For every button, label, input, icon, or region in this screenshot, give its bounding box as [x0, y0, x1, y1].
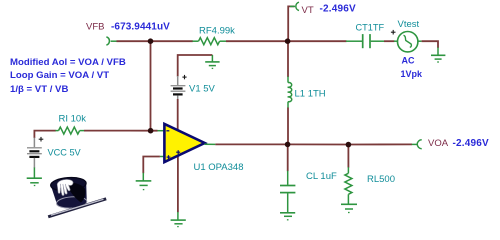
svg-text:VCC 5V: VCC 5V: [48, 147, 82, 157]
wire op-amp inverting input stub (green): [158, 130, 164, 132]
wire VFB junction down to inverting input junction: [150, 41, 152, 131]
label Vtest plus mark: [391, 30, 396, 35]
wire top junction down to L1: [287, 41, 289, 77]
junction output/RL: [346, 142, 352, 148]
ground (below non-inverting input): [136, 173, 152, 190]
junction output/L1/CL: [285, 142, 291, 148]
ground (below CL): [280, 213, 295, 220]
logo magician hat and wand: [50, 176, 88, 209]
svg-text:-673.9441uV: -673.9441uV: [111, 21, 170, 32]
svg-text:RL500: RL500: [367, 174, 395, 185]
wire CT to Vtest: [384, 40, 395, 42]
wire VFB terminal lead (green): [111, 40, 117, 42]
svg-text:Loop Gain = VOA / VT: Loop Gain = VOA / VT: [10, 70, 109, 81]
glove finger lines: [60, 183, 67, 192]
svg-text:Modified Aol = VOA / VFB: Modified Aol = VOA / VFB: [10, 57, 126, 68]
svg-text:-2.496V: -2.496V: [320, 4, 357, 15]
wire RF to top junction: [226, 40, 288, 42]
svg-text:Vtest: Vtest: [398, 19, 420, 30]
wire VCC corner to RI: [34, 131, 55, 138]
wire junction 1 to junction 2: [288, 143, 349, 145]
capacitor CT (1TF): [346, 34, 384, 48]
junction inverting input: [148, 128, 154, 134]
wire op-amp non-inverting input stub (green): [160, 156, 164, 158]
hat body: [51, 182, 88, 204]
ground (right of V1): [205, 55, 219, 68]
svg-text:1Vpk: 1Vpk: [401, 69, 424, 79]
wire L1 to output junction 1: [287, 108, 289, 145]
svg-text:1/β = VT / VB: 1/β = VT / VB: [10, 84, 68, 95]
wire non-inverting input to ground: [143, 157, 160, 174]
svg-text:CL 1uF: CL 1uF: [306, 171, 337, 182]
hat interior shadow: [65, 180, 86, 203]
wire RI to inverting input junction: [84, 130, 158, 132]
pin plus mark (supply): [176, 150, 180, 154]
label V1 plus mark: [182, 75, 186, 79]
inductor L1 (1TH): [288, 77, 292, 108]
junction top at RF/L1 column: [285, 38, 291, 44]
svg-text:AC: AC: [402, 55, 415, 65]
resistor RL (500): [345, 167, 352, 204]
svg-text:L1 1TH: L1 1TH: [295, 89, 326, 100]
wire junction 1 down to CL: [287, 144, 289, 171]
wire VT terminal lead (green): [290, 5, 295, 7]
glove: [57, 179, 74, 196]
svg-text:VT: VT: [302, 5, 314, 16]
wand: [48, 199, 106, 217]
wire VOA terminal lead (green): [412, 143, 418, 145]
wire output to junction 1: [215, 143, 287, 145]
ground (below op-amp): [171, 212, 186, 227]
junction top at VFB column: [148, 38, 154, 44]
wire op-amp output stub (green): [205, 143, 216, 145]
wire top net: VFB node to RF: [117, 40, 193, 42]
node VOA terminal arc: [417, 140, 421, 149]
pin plus mark (input): [167, 155, 171, 159]
node VFB terminal arc: [106, 37, 109, 45]
source VCC battery 5V: [27, 138, 42, 168]
wire top junction to CT: [288, 40, 347, 42]
label VCC plus mark: [39, 137, 44, 142]
svg-text:RI 10k: RI 10k: [59, 113, 87, 124]
node VT terminal arc: [296, 2, 299, 10]
wire V1 top corner to ground: [178, 55, 213, 77]
svg-text:VFB: VFB: [86, 22, 104, 33]
capacitor CL (1uF): [280, 171, 295, 212]
svg-text:U1 OPA348: U1 OPA348: [194, 162, 244, 173]
hat opening: [50, 176, 86, 192]
wire VT branch vertical: [288, 6, 294, 41]
ground (below VCC): [27, 168, 42, 186]
svg-text:RF4.99k: RF4.99k: [199, 25, 235, 36]
wire junction 2 down to RL: [347, 145, 349, 168]
resistor RF (4.99k): [193, 38, 227, 45]
svg-text:CT1TF: CT1TF: [356, 23, 385, 33]
wire junction 2 to VOA node: [348, 143, 412, 145]
wire op-amp negative supply to ground: [177, 156, 179, 212]
ground (right of Vtest): [431, 48, 445, 63]
pin minus mark: [166, 130, 169, 132]
source V1 battery 5V: [171, 76, 186, 100]
source Vtest AC generator: [394, 32, 422, 52]
formula text block: [10, 57, 126, 95]
op-amp U1 OPA348: [164, 124, 204, 162]
svg-text:V1 5V: V1 5V: [189, 84, 216, 95]
svg-text:-2.496V: -2.496V: [453, 138, 490, 149]
resistor RI (10k): [56, 127, 85, 134]
wire Vtest to ground corner: [422, 41, 438, 48]
ground (below RL): [341, 204, 357, 212]
wire V1 to op-amp positive supply: [177, 99, 179, 131]
hat brim: [56, 196, 87, 209]
svg-text:VOA: VOA: [428, 138, 449, 149]
